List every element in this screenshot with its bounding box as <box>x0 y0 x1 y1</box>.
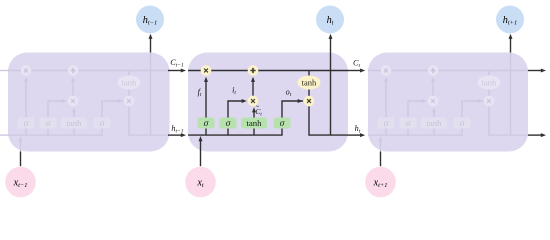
svg-text:σ: σ <box>460 119 465 129</box>
wire forget branch (faded, cell t+1) <box>384 77 388 135</box>
node x_t+1 input circle <box>365 167 396 198</box>
label f_t (cell t) <box>198 88 202 99</box>
tanh ellipse (cell t) <box>298 76 321 90</box>
sigma box (input gate) (faded, cell t+1) <box>400 118 417 130</box>
svg-text:tanh: tanh <box>482 77 497 87</box>
svg-text:tanh: tanh <box>66 118 82 128</box>
node x_t-1 input circle <box>5 167 36 198</box>
pointwise multiply gate (forget) (faded, cell t+1) <box>381 65 392 76</box>
pointwise multiply gate (forget) (faded, cell t-1) <box>21 65 32 76</box>
tanh box (candidate) (faded, cell t-1) <box>61 118 87 129</box>
sigma box (forget gate) (faded, cell t+1) <box>378 118 395 130</box>
pointwise multiply gate (forget) (cell t) <box>201 65 212 76</box>
wire candidate branch (cell t) <box>252 107 256 135</box>
wire h_t-1 up arrow to circle <box>149 34 153 53</box>
wire h output branch vertical (faded, cell t+1) <box>510 53 512 136</box>
svg-text:σ: σ <box>406 119 411 129</box>
tanh box (candidate) (faded, cell t+1) <box>421 118 447 129</box>
svg-text:ht: ht <box>355 124 361 135</box>
LSTM next cell body (t+1) <box>368 53 528 152</box>
wire C to output tanh (faded, cell t+1) <box>488 71 490 102</box>
label C_t-1 <box>170 58 184 69</box>
wire h_t up arrow to circle <box>329 34 333 53</box>
wire h output branch vertical (cell t) <box>330 53 332 136</box>
svg-text:tanh: tanh <box>302 77 317 87</box>
svg-text:tanh: tanh <box>122 77 137 87</box>
wire x input junction arrow (faded, cell t-1) <box>19 136 23 152</box>
svg-text:σ: σ <box>384 119 389 129</box>
pointwise multiply gate (input) (faded, cell t+1) <box>428 96 439 107</box>
wire hidden-state line into o-gate (cell t) <box>188 99 303 135</box>
wire x input junction arrow (cell t) <box>199 136 203 152</box>
pointwise multiply gate (input) (faded, cell t-1) <box>68 96 79 107</box>
svg-text:tanh: tanh <box>426 118 442 128</box>
label h_t-1 <box>171 124 183 135</box>
wire input-gate branch (faded, cell t-1) <box>48 99 67 135</box>
label o_t (cell t) <box>286 88 292 99</box>
label C_t <box>353 59 360 70</box>
wire hidden-state line into o-gate (faded, cell t+1) <box>368 99 483 135</box>
node h_t+1 output circle <box>496 6 524 34</box>
wire cell-state line C (faded, cell t-1) <box>8 70 168 72</box>
svg-text:~: ~ <box>256 104 260 111</box>
wire output to h line (faded, cell t-1) <box>129 106 168 135</box>
sigma box (input gate) (cell t) <box>220 118 237 130</box>
wire h_t-1 input arrow <box>168 133 186 137</box>
label h_t <box>355 124 361 135</box>
sigma box (output gate) (faded, cell t+1) <box>454 118 471 130</box>
wire candidate branch (faded, cell t-1) <box>72 107 76 135</box>
wire C to output tanh (cell t) <box>308 71 310 102</box>
wire forget branch (faded, cell t-1) <box>24 77 28 135</box>
tanh ellipse (faded, cell t-1) <box>118 76 141 90</box>
pointwise add gate (cell t) <box>248 65 259 76</box>
wire faded h stub at left edge <box>0 134 10 136</box>
pointwise multiply gate (output) (faded, cell t-1) <box>124 96 135 107</box>
wire forget branch (cell t) <box>204 77 208 135</box>
wire output to h line (faded, cell t+1) <box>489 106 528 135</box>
pointwise multiply gate (output) (cell t) <box>304 96 315 107</box>
svg-text:Ct: Ct <box>353 59 360 70</box>
wire input-times-candidate to plus (cell t) <box>251 77 255 96</box>
tanh ellipse (faded, cell t+1) <box>478 76 501 90</box>
node h_t output circle <box>316 6 344 34</box>
wire cell-state line C (faded, cell t+1) <box>368 70 528 72</box>
pointwise multiply gate (output) (faded, cell t+1) <box>484 96 495 107</box>
sigma box (output gate) (faded, cell t-1) <box>94 118 111 130</box>
wire input-times-candidate to plus (faded, cell t+1) <box>431 77 435 96</box>
pointwise add gate (faded, cell t+1) <box>428 65 439 76</box>
label i_t (cell t) <box>232 86 236 97</box>
wire input-gate branch (faded, cell t+1) <box>408 99 427 135</box>
node h_t-1 output circle <box>136 6 164 34</box>
LSTM previous cell body (t-1) <box>8 53 170 152</box>
LSTM current cell body (t) <box>188 53 348 152</box>
svg-text:tanh: tanh <box>246 118 262 128</box>
wire x_t input line <box>200 152 202 167</box>
svg-text:ht−1: ht−1 <box>171 124 183 135</box>
pointwise multiply gate (input) (cell t) <box>248 96 259 107</box>
wire x_t+1 input line <box>380 152 382 167</box>
wire C_t output arrow <box>348 69 365 73</box>
sigma box (forget gate) (faded, cell t-1) <box>18 118 35 130</box>
wire x input junction arrow (faded, cell t+1) <box>379 136 383 152</box>
label C~_t (cell t) <box>255 104 262 117</box>
wire faded C stub at left edge <box>0 70 10 72</box>
svg-text:σ: σ <box>226 119 231 129</box>
wire h_t+1 up arrow to circle <box>509 34 513 53</box>
svg-text:σ: σ <box>280 119 285 129</box>
wire h_t+1 exit arrow <box>528 133 546 137</box>
wire hidden-state line into o-gate (faded, cell t-1) <box>8 99 123 135</box>
wire h_t output arrow <box>348 133 365 137</box>
wire x_t-1 input line <box>20 152 22 167</box>
sigma box (input gate) (faded, cell t-1) <box>40 118 57 130</box>
node x_t input circle <box>185 167 216 198</box>
svg-text:Ct−1: Ct−1 <box>170 58 184 69</box>
svg-text:σ: σ <box>100 119 105 129</box>
wire candidate branch (faded, cell t+1) <box>432 107 436 135</box>
sigma box (output gate) (cell t) <box>274 118 291 130</box>
sigma box (forget gate) (cell t) <box>198 118 215 130</box>
wire C_t-1 input arrow <box>168 69 186 73</box>
wire cell-state line C (cell t) <box>188 70 348 72</box>
wire C to output tanh (faded, cell t-1) <box>128 71 130 102</box>
pointwise add gate (faded, cell t-1) <box>68 65 79 76</box>
tanh box (candidate) (cell t) <box>241 118 267 129</box>
wire input-times-candidate to plus (faded, cell t-1) <box>71 77 75 96</box>
wire input-gate branch (cell t) <box>228 99 247 135</box>
svg-text:σ: σ <box>204 119 209 129</box>
wire output to h line (cell t) <box>309 106 348 135</box>
svg-text:σ: σ <box>24 119 29 129</box>
wire h output branch vertical (faded, cell t-1) <box>150 53 152 136</box>
wire C_t+1 exit arrow <box>528 69 546 73</box>
svg-text:σ: σ <box>46 119 51 129</box>
